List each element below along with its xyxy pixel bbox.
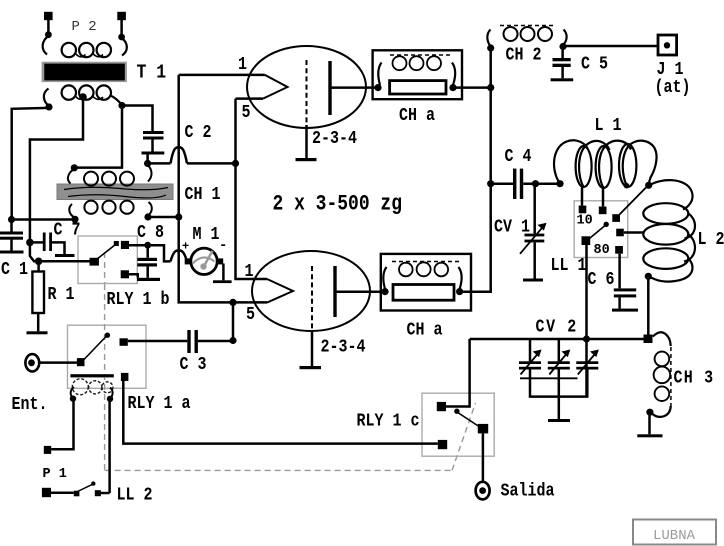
svg-text:CH 3: CH 3: [674, 368, 715, 389]
svg-text:2-3-4: 2-3-4: [321, 337, 366, 358]
svg-text:(at): (at): [655, 78, 691, 99]
svg-text:CH a: CH a: [399, 106, 435, 127]
svg-text:Ent.: Ent.: [12, 395, 48, 416]
svg-text:RLY 1 c: RLY 1 c: [357, 411, 420, 432]
svg-text:Salida: Salida: [501, 481, 555, 502]
svg-text:C 6: C 6: [588, 270, 615, 291]
svg-text:C 8: C 8: [137, 223, 164, 244]
svg-text:-: -: [219, 238, 227, 254]
svg-text:R 1: R 1: [48, 285, 75, 306]
svg-text:2 x 3-500 zg: 2 x 3-500 zg: [273, 192, 403, 217]
svg-text:P 1: P 1: [43, 467, 67, 482]
svg-text:C 2: C 2: [185, 123, 212, 144]
svg-text:M 1: M 1: [193, 225, 220, 246]
svg-text:CV 2: CV 2: [536, 317, 578, 338]
svg-text:RLY 1 a: RLY 1 a: [128, 394, 191, 415]
svg-text:CH a: CH a: [407, 320, 443, 341]
svg-text:5: 5: [242, 103, 251, 124]
svg-text:C 3: C 3: [180, 355, 207, 376]
svg-text:1: 1: [245, 262, 254, 283]
svg-text:+: +: [182, 240, 189, 254]
svg-text:CH 1: CH 1: [185, 185, 221, 206]
svg-text:C 1: C 1: [1, 260, 28, 281]
svg-text:T 1: T 1: [137, 62, 167, 84]
svg-text:C 4: C 4: [505, 147, 532, 168]
svg-text:5: 5: [246, 305, 255, 326]
svg-text:LUBNA: LUBNA: [653, 528, 696, 544]
svg-text:CH 2: CH 2: [506, 45, 542, 66]
svg-text:10: 10: [577, 214, 593, 229]
svg-text:L 1: L 1: [595, 116, 622, 137]
svg-text:80: 80: [594, 243, 610, 258]
svg-text:RLY 1 b: RLY 1 b: [107, 290, 170, 311]
svg-text:L 2: L 2: [698, 230, 724, 251]
svg-text:CV 1: CV 1: [494, 217, 530, 238]
svg-text:P 2: P 2: [72, 19, 97, 35]
svg-text:LL 1: LL 1: [551, 256, 587, 277]
svg-text:2-3-4: 2-3-4: [312, 129, 357, 150]
svg-text:LL 2: LL 2: [117, 485, 153, 506]
svg-text:C 5: C 5: [581, 54, 608, 75]
svg-text:1: 1: [238, 55, 247, 76]
svg-text:C 7: C 7: [54, 220, 81, 241]
